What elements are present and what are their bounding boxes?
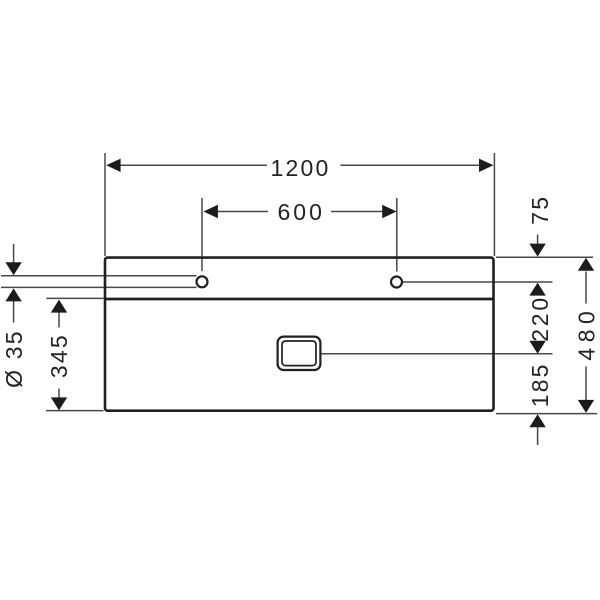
svg-text:345: 345 — [46, 333, 72, 378]
svg-text:185: 185 — [527, 362, 553, 407]
svg-text:480: 480 — [574, 306, 600, 361]
svg-text:600: 600 — [278, 199, 325, 225]
svg-text:75: 75 — [527, 195, 553, 225]
svg-text:Ø 35: Ø 35 — [1, 329, 27, 388]
svg-text:220: 220 — [527, 295, 553, 342]
svg-text:1200: 1200 — [271, 155, 331, 181]
